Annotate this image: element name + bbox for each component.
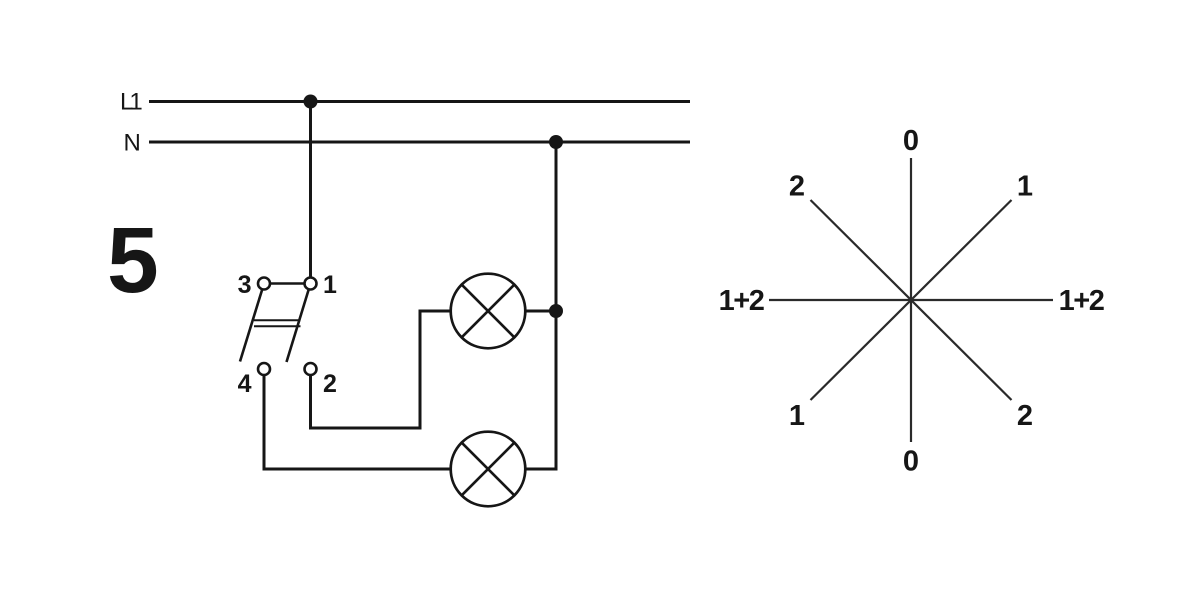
svg-text:2: 2 xyxy=(1017,400,1033,432)
svg-text:1+2: 1+2 xyxy=(1059,285,1104,317)
svg-text:2: 2 xyxy=(789,171,805,203)
lamp E1 cross xyxy=(462,285,515,338)
wire N line xyxy=(149,141,690,144)
wire link between terminals 3 and 1 xyxy=(270,282,305,285)
position cross horizontal ray xyxy=(769,299,1053,301)
switch S terminal 4 xyxy=(258,363,270,375)
svg-text:5: 5 xyxy=(107,208,159,312)
wire L1 line xyxy=(149,100,690,103)
junction dot at lamp E1 right connection xyxy=(549,304,563,318)
lamp E2 circle xyxy=(451,432,526,507)
svg-text:2: 2 xyxy=(323,370,337,398)
position cross vertical ray xyxy=(910,158,912,442)
switch S terminal 1 xyxy=(305,278,317,290)
svg-text:L1: L1 xyxy=(120,89,142,116)
svg-text:1: 1 xyxy=(789,400,805,432)
svg-text:4: 4 xyxy=(238,370,252,398)
lamp E1 circle xyxy=(451,274,526,349)
wire lamp E1 right side to node xyxy=(526,310,556,313)
svg-text:1: 1 xyxy=(1017,171,1033,203)
wire from L1 down to switch terminal 1 xyxy=(309,102,312,278)
switch lever from terminal 1 xyxy=(287,289,309,362)
wire from terminal 4 to lamp E2 left side xyxy=(264,375,450,469)
switch coupling bar lower xyxy=(254,325,301,327)
junction dot on N xyxy=(549,135,563,149)
switch lever from terminal 3 xyxy=(240,289,262,361)
lamp E2 cross xyxy=(462,443,515,496)
switch coupling bar upper xyxy=(254,319,301,321)
svg-text:N: N xyxy=(124,130,141,157)
switch S terminal 3 xyxy=(258,278,270,290)
position cross diagonal ray NW-SE xyxy=(811,200,1012,400)
svg-text:3: 3 xyxy=(238,271,252,299)
wire from N down to lamp E2 right side xyxy=(526,142,556,469)
svg-text:1: 1 xyxy=(323,271,337,299)
svg-text:0: 0 xyxy=(903,125,919,157)
position cross diagonal ray NE-SW xyxy=(811,200,1012,400)
svg-text:0: 0 xyxy=(903,446,919,478)
junction dot on L1 xyxy=(304,95,318,109)
svg-text:1+2: 1+2 xyxy=(719,285,764,317)
wire from terminal 2 to lamp E1 left side xyxy=(311,311,451,428)
switch S terminal 2 xyxy=(305,363,317,375)
